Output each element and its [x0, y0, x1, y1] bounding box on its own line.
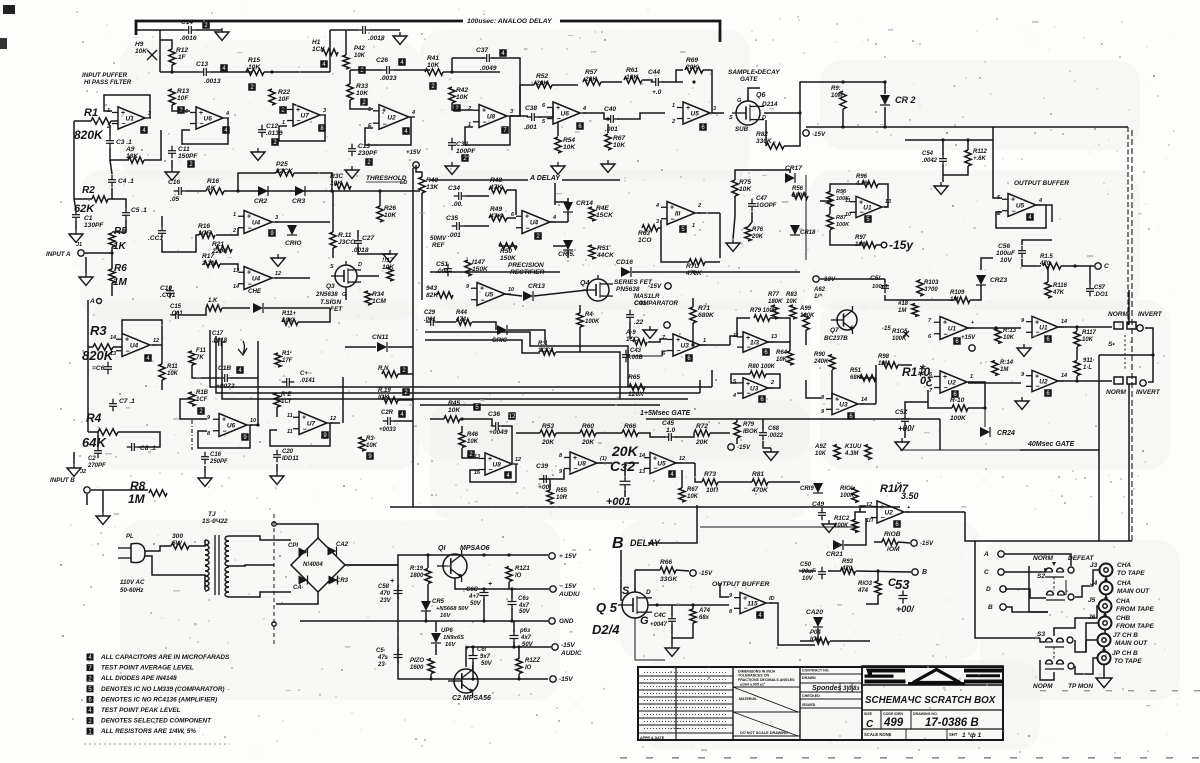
svg-text:2N5638: 2N5638	[315, 291, 338, 298]
node size cell	[880, 710, 882, 729]
svg-text:R51: R51	[597, 245, 609, 252]
svg-text:R79 100K: R79 100K	[750, 308, 778, 314]
svg-text:47K: 47K	[1052, 290, 1065, 296]
capacitor C52	[901, 418, 909, 420]
svg-text:17-0386 B: 17-0386 B	[925, 717, 979, 729]
svg-text:50V: 50V	[470, 601, 482, 607]
svg-text:470K: 470K	[751, 487, 769, 494]
capacitor C1	[72, 214, 80, 216]
resistor R22	[269, 89, 275, 105]
svg-text:IBOK: IBOK	[743, 429, 759, 435]
svg-text:10F: 10F	[278, 96, 290, 103]
ground	[665, 648, 679, 656]
resistor R17b	[189, 351, 195, 365]
svg-text:3: 3	[510, 109, 513, 115]
test point tag	[429, 82, 437, 90]
wire	[74, 199, 76, 210]
svg-text:R103: R103	[924, 280, 939, 286]
svg-text:R79: R79	[743, 422, 755, 428]
node -15V e	[690, 570, 696, 576]
svg-text:C: C	[1104, 263, 1109, 270]
svg-text:50MV: 50MV	[430, 235, 447, 242]
capacitor C31	[444, 268, 452, 270]
svg-text:J3: J3	[1090, 562, 1098, 569]
test point tag	[321, 431, 329, 439]
svg-text:AUDIU: AUDIU	[558, 591, 580, 598]
svg-text:CRI5.: CRI5.	[558, 251, 575, 258]
svg-text:10K: 10K	[467, 439, 479, 445]
svg-text:13: 13	[110, 351, 116, 357]
svg-text:C10: C10	[160, 285, 172, 292]
resistor R63	[642, 225, 658, 231]
resistor R120	[428, 659, 434, 674]
svg-text:R4·: R4·	[585, 312, 595, 318]
svg-text:44CK: 44CK	[596, 252, 615, 259]
svg-text:1M: 1M	[1000, 367, 1009, 373]
svg-text:CHECKED: CHECKED	[802, 694, 820, 698]
svg-text:+N5668 50V: +N5668 50V	[436, 606, 470, 612]
resistor R68b	[633, 339, 647, 345]
test point tag	[864, 215, 872, 223]
diode CR14	[563, 202, 573, 212]
svg-text:+0072: +0072	[216, 383, 235, 390]
node -15V AUDIO term	[552, 644, 558, 650]
resistor R79	[754, 315, 770, 321]
wire	[111, 247, 113, 269]
svg-text:CA2: CA2	[336, 542, 349, 548]
resistor R69	[685, 67, 703, 73]
svg-text:R60: R60	[582, 423, 594, 430]
svg-text:DENOTES SELECTED COMPONENT: DENOTES SELECTED COMPONENT	[101, 718, 212, 725]
svg-text:4: 4	[1038, 198, 1042, 204]
node -15V handwritten	[881, 242, 887, 248]
svg-text:P25: P25	[276, 161, 288, 168]
resistor R300	[171, 543, 189, 549]
capacitor C61	[469, 655, 478, 657]
node down arrow	[238, 341, 247, 355]
test point tag	[177, 106, 185, 114]
svg-text:+: +	[247, 270, 251, 277]
svg-text:+: +	[1011, 197, 1015, 204]
svg-text:AUDIС: AUDIС	[560, 650, 582, 657]
svg-text:820K: 820K	[74, 128, 104, 142]
wire	[510, 115, 528, 117]
op-amp U4	[244, 211, 272, 234]
svg-text:22CK: 22CK	[275, 168, 294, 175]
svg-text:230PF: 230PF	[357, 150, 378, 157]
wire	[398, 373, 413, 375]
svg-text:16V: 16V	[445, 642, 456, 648]
wire	[171, 160, 173, 168]
capacitor C42	[620, 480, 631, 482]
svg-text:R71: R71	[698, 305, 710, 312]
svg-text:R49: R49	[490, 206, 502, 213]
wire	[516, 432, 540, 434]
svg-text:+: +	[573, 455, 577, 462]
svg-text:1M: 1M	[128, 492, 146, 506]
capacitor C6	[104, 366, 112, 368]
svg-text:12: 12	[330, 416, 336, 422]
resistor R16b	[199, 232, 215, 238]
wire dashdot	[191, 420, 193, 450]
svg-text:1CF: 1CF	[198, 230, 211, 237]
svg-text:C50: C50	[800, 562, 812, 568]
diode CR24	[980, 427, 990, 437]
svg-text:- · —: - · —	[670, 726, 682, 732]
svg-text:U4: U4	[530, 220, 539, 227]
svg-text:R22: R22	[278, 89, 290, 96]
svg-text:68х: 68х	[699, 615, 710, 621]
resistor R20	[274, 393, 280, 407]
svg-text:−: −	[126, 348, 130, 355]
svg-text:N!4004: N!4004	[303, 562, 323, 568]
svg-text:R.N: R.N	[378, 366, 389, 372]
switch S2 row2	[1047, 591, 1054, 595]
svg-text:68K: 68K	[850, 375, 862, 381]
svg-text:A: A	[983, 551, 989, 558]
jack J4	[1100, 582, 1113, 595]
resistor R119	[425, 569, 431, 584]
wire	[466, 195, 489, 197]
svg-text:-15V: -15V	[737, 444, 751, 451]
svg-text:C41: C41	[634, 300, 646, 307]
svg-text:R41: R41	[427, 55, 439, 62]
wire bus 2	[216, 336, 700, 393]
resistor R43	[437, 292, 453, 298]
svg-text:474: 474	[857, 588, 869, 594]
wire	[108, 188, 112, 199]
svg-text:+00/: +00/	[896, 604, 915, 614]
svg-text:2: 2	[697, 203, 701, 209]
svg-text:180K: 180K	[768, 299, 783, 305]
wire	[88, 346, 93, 348]
svg-text:115: 115	[747, 601, 758, 608]
svg-text:250PF: 250PF	[209, 459, 228, 465]
svg-text:C45: C45	[662, 420, 674, 427]
svg-text:Р04: Р04	[810, 630, 821, 636]
svg-text:1600: 1600	[410, 665, 424, 671]
resistor R67	[605, 134, 611, 150]
svg-text:.001: .001	[448, 232, 461, 239]
wire	[505, 294, 522, 296]
wire	[180, 399, 207, 419]
svg-text:J3CO: J3CO	[338, 239, 356, 246]
wire	[443, 71, 500, 73]
capacitor C51b	[881, 285, 889, 287]
svg-text:INPUT A: INPUT A	[46, 251, 71, 258]
svg-text:D: D	[986, 586, 991, 593]
ground	[69, 234, 83, 242]
wire	[830, 184, 862, 192]
wire	[435, 621, 437, 632]
resistor R109	[954, 297, 970, 303]
svg-text:S•: S•	[1108, 341, 1115, 348]
op-amp U1 cluster	[856, 196, 882, 217]
test point tag	[508, 412, 516, 420]
svg-text:U1: U1	[863, 205, 872, 212]
wire	[1022, 240, 1052, 245]
wire	[736, 419, 738, 422]
resistor R13	[169, 89, 175, 105]
svg-text:14: 14	[1061, 373, 1067, 379]
svg-text:U6: U6	[561, 111, 570, 118]
diode CR13	[523, 291, 533, 301]
svg-text:+: +	[907, 505, 911, 511]
svg-text:1CC: 1CC	[626, 337, 639, 343]
capacitor C45	[668, 433, 670, 441]
wire	[820, 278, 885, 280]
svg-text:+: +	[676, 337, 680, 344]
svg-text:10R: 10R	[556, 495, 568, 501]
svg-text:23·: 23·	[377, 662, 387, 668]
node -15V d	[911, 540, 917, 546]
svg-text:CHA: CHA	[1116, 598, 1130, 605]
svg-text:R96: R96	[856, 174, 868, 180]
svg-text:ALL CAPACITORS ARE IN MICROFAR: ALL CAPACITORS ARE IN MICROFARADS	[100, 654, 230, 661]
resistor R17	[204, 261, 220, 267]
wire	[607, 124, 609, 133]
svg-text:U6: U6	[204, 116, 213, 123]
svg-text:10K: 10K	[354, 53, 366, 59]
test point tag	[202, 21, 210, 29]
svg-text:-15у: -15у	[889, 238, 914, 252]
svg-text:R64: R64	[776, 350, 788, 356]
svg-text:13: 13	[771, 334, 777, 340]
resistor R87	[827, 215, 833, 230]
wire S1 mid junction	[1099, 354, 1154, 356]
resistor R15	[246, 69, 264, 75]
ground	[1017, 348, 1031, 356]
ground	[1096, 678, 1112, 688]
resistor R52	[534, 82, 552, 88]
svg-text:.00.: .00.	[452, 201, 463, 208]
wire	[1058, 326, 1112, 328]
ground	[79, 277, 93, 285]
svg-text:20K: 20K	[685, 64, 699, 71]
svg-text:1: 1	[692, 223, 695, 229]
wire	[220, 264, 238, 271]
ground	[96, 516, 110, 524]
op-amp U5 e	[650, 452, 676, 473]
op-amp U3 c	[743, 378, 768, 399]
resistor R51b2	[860, 375, 876, 381]
svg-text:C47: C47	[756, 196, 768, 202]
capacitor C15	[175, 311, 177, 319]
svg-text:iOM: iOM	[887, 546, 900, 553]
svg-text:100K: 100K	[840, 493, 855, 499]
svg-text:−: −	[1012, 208, 1016, 215]
svg-text:2: 2	[770, 380, 774, 386]
svg-text:R98: R98	[878, 354, 890, 360]
capacitor C20	[273, 454, 281, 456]
svg-text:C57: C57	[1094, 285, 1106, 291]
test point tag	[402, 127, 410, 135]
svg-text:R16: R16	[207, 178, 219, 185]
svg-text:10K: 10K	[330, 180, 343, 187]
svg-text:S: S	[729, 115, 733, 121]
resistor R73	[702, 479, 718, 485]
wire	[632, 271, 800, 273]
wire S1 down links	[1098, 355, 1100, 541]
resistor R104	[917, 280, 923, 296]
test point tag	[365, 158, 373, 166]
wire	[136, 30, 160, 72]
svg-text:1: 1	[233, 212, 236, 218]
svg-text:RiOB: RiOB	[884, 531, 901, 538]
wire bus 3	[222, 342, 688, 399]
wire	[416, 165, 422, 177]
svg-text:C6з: C6з	[518, 596, 529, 602]
wire	[345, 287, 347, 300]
svg-text:R:13: R:13	[1003, 328, 1017, 334]
svg-text:D214: D214	[762, 101, 778, 108]
svg-text:1/3: 1/3	[750, 340, 759, 347]
svg-text:100K: 100K	[892, 336, 907, 342]
svg-text:CRZ3: CRZ3	[990, 277, 1008, 284]
svg-text:.CC1: .CC1	[148, 235, 163, 242]
svg-text:A9: A9	[125, 146, 135, 153]
svg-text:1.0: 1.0	[666, 427, 675, 434]
resistor R18	[189, 392, 195, 406]
wire right edge vertical	[1127, 127, 1129, 325]
test point tag	[679, 225, 687, 233]
svg-text:1800: 1800	[410, 573, 424, 579]
svg-text:C13: C13	[196, 61, 208, 68]
svg-text:3: 3	[713, 106, 716, 112]
svg-text:R57: R57	[585, 69, 597, 76]
resistor R38	[382, 397, 398, 403]
svg-text:470: 470	[841, 566, 853, 572]
wire	[748, 88, 760, 101]
diode CR16	[621, 267, 631, 277]
capacitor C17	[218, 338, 220, 346]
svg-text:10Π: 10Π	[706, 487, 718, 494]
wire	[805, 330, 807, 345]
svg-text:C51: C51	[436, 261, 448, 268]
wire corner mark	[3, 5, 15, 14]
svg-text:DENOTES IC NO RC4136 (AMPLIFIE: DENOTES IC NO RC4136 (AMPLIFIER)	[101, 696, 217, 703]
node -15V	[665, 283, 671, 289]
svg-text:C26: C26	[376, 57, 388, 64]
diode CR17	[785, 173, 795, 183]
op-amp U3	[673, 334, 700, 356]
wire feedback U8	[465, 116, 510, 145]
svg-text:20K: 20K	[541, 439, 555, 446]
resistor R30	[335, 183, 351, 189]
capacitor C3	[106, 140, 114, 142]
resistor R53	[540, 430, 556, 436]
svg-text:C+··: C+··	[300, 371, 312, 377]
wire	[145, 546, 171, 551]
svg-text:10K: 10K	[382, 264, 395, 271]
test point tag	[756, 611, 764, 619]
op-amp U1	[118, 107, 145, 129]
svg-text:.0016: .0016	[180, 35, 197, 42]
capacitor C36	[495, 422, 497, 430]
svg-text:270PF: 270PF	[87, 463, 106, 469]
op-amp U3 d2	[832, 393, 858, 414]
svg-text:C5 .1: C5 .1	[131, 207, 147, 214]
svg-text:U8: U8	[493, 462, 502, 469]
ground	[345, 170, 359, 178]
resistor R44	[457, 319, 472, 325]
wire bottom edge dots	[620, 757, 627, 759]
svg-text:150K: 150K	[500, 255, 517, 262]
svg-text:R112: R112	[973, 149, 988, 155]
capacitor C9	[158, 230, 166, 232]
test point tag	[360, 98, 368, 106]
capacitor C5	[122, 212, 130, 214]
svg-text:ALL DIODES APE IN4148: ALL DIODES APE IN4148	[100, 675, 177, 682]
svg-text:10V: 10V	[1000, 257, 1012, 264]
resistor R33	[347, 84, 353, 100]
resistor R86	[827, 192, 833, 207]
svg-text:U2: U2	[885, 510, 894, 517]
ground	[67, 468, 81, 476]
node note DENOTES IC NO RC4136	[87, 696, 94, 703]
svg-text:S3: S3	[1037, 631, 1045, 638]
svg-text:C56: C56	[998, 243, 1010, 250]
svg-text:R55: R55	[556, 488, 568, 494]
svg-text:.0141: .0141	[300, 378, 316, 384]
svg-text:R56: R56	[836, 189, 847, 195]
wire	[1053, 647, 1055, 660]
jack J3	[1100, 564, 1113, 577]
svg-text:CR13: CR13	[528, 283, 545, 290]
wire	[705, 261, 720, 263]
svg-text:100K: 100K	[834, 523, 849, 529]
svg-text:3: 3	[323, 108, 326, 114]
wire	[764, 112, 800, 114]
svg-text:S: S	[330, 264, 334, 270]
wire feedback U7	[279, 115, 325, 141]
resistor R108	[882, 539, 898, 545]
svg-text:PIZO: PIZO	[410, 658, 424, 664]
svg-text:.0018: .0018	[212, 338, 228, 344]
svg-text:R42: R42	[456, 87, 468, 94]
resistor R110b	[952, 405, 968, 411]
resistor R11	[159, 364, 165, 380]
svg-text:911·: 911·	[1083, 358, 1095, 364]
test point tag	[279, 106, 287, 114]
node +15V AUDIO term	[550, 586, 556, 592]
svg-text:ALL RESISTORS ARE 1/4W, 5%: ALL RESISTORS ARE 1/4W, 5%	[100, 728, 196, 735]
svg-text:R53: R53	[542, 423, 554, 430]
ground	[271, 258, 285, 266]
resistor R76	[745, 227, 751, 241]
wire gate 40ms	[1020, 449, 1099, 451]
node -15V term	[550, 676, 556, 682]
svg-text:R69: R69	[686, 57, 698, 64]
test point tag	[236, 366, 244, 374]
node term	[664, 322, 670, 328]
wire	[583, 113, 607, 119]
svg-text:D: D	[646, 589, 651, 596]
svg-text:62K: 62K	[74, 203, 95, 215]
svg-text:CR 2: CR 2	[895, 95, 916, 105]
resistor R26	[377, 206, 383, 222]
svg-text:−: −	[944, 331, 948, 338]
capacitor C7	[109, 403, 117, 405]
capacitor C48	[759, 432, 767, 434]
diode CR3	[295, 186, 305, 196]
svg-text:.0018: .0018	[368, 35, 385, 42]
svg-text:U1: U1	[126, 116, 135, 123]
capacitor C19	[286, 378, 288, 386]
node note ALL RESISTORS ARE 1/	[87, 728, 94, 735]
svg-text:1+5Mѕес GATE: 1+5Mѕес GATE	[640, 410, 691, 417]
svg-text:U4: U4	[130, 343, 139, 350]
